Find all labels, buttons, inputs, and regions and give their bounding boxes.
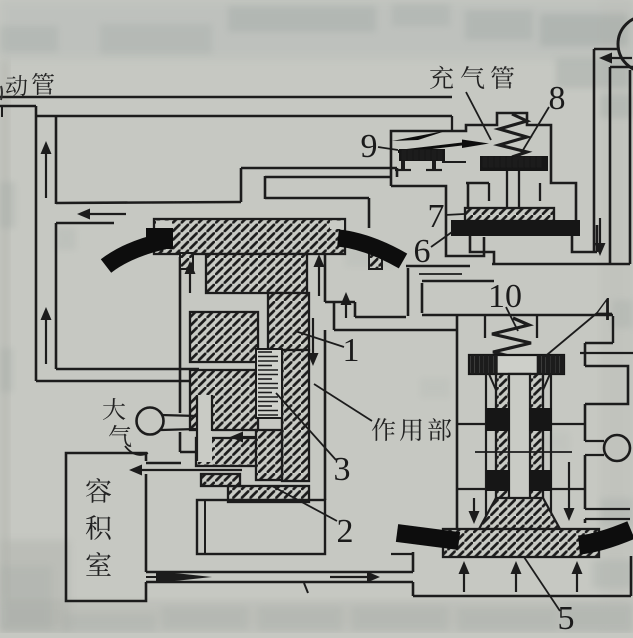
svg-text:3: 3 xyxy=(334,451,351,488)
svg-text:6: 6 xyxy=(414,233,431,270)
svg-text:2: 2 xyxy=(337,513,354,550)
svg-text:9: 9 xyxy=(361,128,378,165)
svg-text:5: 5 xyxy=(558,600,575,633)
svg-text:1: 1 xyxy=(343,332,360,369)
svg-text:7: 7 xyxy=(428,198,445,235)
svg-text:10: 10 xyxy=(488,278,522,315)
svg-text:8: 8 xyxy=(549,80,566,117)
svg-text:4: 4 xyxy=(596,291,613,328)
